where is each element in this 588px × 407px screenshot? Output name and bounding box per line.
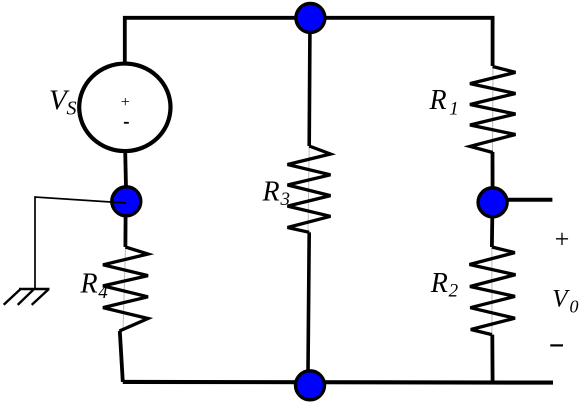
resistor R4 body thin guide [123, 247, 126, 331]
wire node N4 to R2 top [490, 215, 494, 247]
svg-text:+: + [120, 94, 131, 111]
wire node N2 to ground [35, 197, 126, 289]
resistor R1 [470, 67, 516, 153]
svg-text:0: 0 [570, 297, 579, 317]
wire R3 bottom to node N3 [308, 232, 309, 372]
resistor R3 body thin guide [308, 146, 309, 232]
wire R1 bottom to node N4 [491, 152, 495, 203]
node N4 output junction [478, 188, 507, 217]
wire R4 bottom lead [120, 331, 123, 382]
node N1 top junction [296, 3, 325, 32]
svg-text:4: 4 [98, 282, 108, 303]
svg-text:S: S [67, 98, 77, 120]
label R2 [430, 268, 459, 301]
ground [4, 289, 50, 305]
wire VS top lead to node N1 [125, 18, 310, 63]
resistor R2 [470, 247, 516, 335]
svg-text:R: R [80, 268, 98, 299]
svg-text:R: R [429, 85, 447, 116]
resistor R4 [103, 247, 148, 331]
voltage source VS [79, 64, 170, 152]
wire node N1 to R1 top [310, 18, 493, 66]
wire R2 bottom lead to bottom rail [490, 335, 494, 382]
svg-text:2: 2 [449, 280, 459, 301]
svg-text:R: R [262, 176, 280, 207]
wire output stub from node N4 [507, 198, 552, 202]
wire node N1 to R3 top [307, 18, 311, 146]
node N2 left junction [112, 187, 141, 216]
label R4 [80, 268, 109, 303]
svg-text:1: 1 [449, 98, 459, 119]
node N3 bottom junction [296, 371, 325, 400]
label R1 [429, 85, 459, 119]
resistor R3 [288, 146, 331, 232]
resistor R1 body thin guide [492, 66, 495, 152]
wire bottom rail [123, 380, 553, 385]
svg-text:+: + [553, 225, 571, 254]
label VS [49, 85, 77, 120]
svg-text:3: 3 [280, 189, 291, 210]
label R3 [262, 176, 291, 210]
svg-text:V: V [552, 286, 570, 313]
resistor R2 body thin guide [491, 247, 493, 335]
wire VS bottom lead to node N2 [125, 152, 126, 202]
label V0 minus terminal [550, 344, 563, 346]
svg-text:R: R [430, 268, 448, 299]
label V0 [552, 286, 578, 317]
wire node N2 to R4 top [124, 214, 128, 247]
